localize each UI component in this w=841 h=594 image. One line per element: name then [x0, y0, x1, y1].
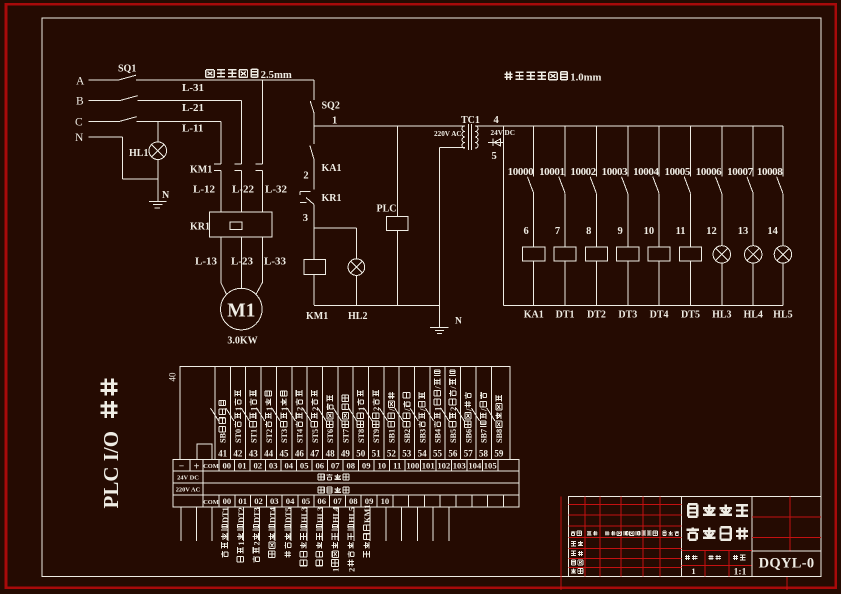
svg-text:47: 47: [310, 449, 320, 459]
svg-text:1:1: 1:1: [734, 568, 747, 578]
input wire diagonal 51: [364, 408, 372, 421]
svg-text:5: 5: [492, 151, 497, 162]
vertical heading PLC I/O分配: [99, 379, 123, 509]
coil DT3 box: [627, 193, 629, 247]
svg-text:220V AC: 220V AC: [434, 130, 462, 138]
relay contact KA1 blade: [310, 146, 314, 160]
svg-text:00: 00: [223, 461, 232, 471]
input wire diagonal 58: [471, 408, 479, 421]
input terminal 43 label: [249, 390, 258, 443]
svg-text:COM: COM: [203, 499, 219, 506]
input terminal 55 label: [434, 370, 443, 443]
input terminal 44 label: [265, 391, 274, 443]
quantity weight scale cells: [681, 550, 752, 552]
svg-text:L-11: L-11: [182, 123, 203, 135]
input terminal 58 label: [480, 392, 489, 443]
svg-text:00: 00: [223, 496, 232, 506]
branch HL4: PLC output contact 10007: [752, 126, 754, 177]
lamp HL3: [721, 193, 723, 245]
lamp HL4: [752, 193, 754, 245]
svg-text:56: 56: [448, 449, 458, 459]
svg-text:SB5: SB5: [449, 429, 458, 443]
input wire diagonal 41: [211, 408, 219, 421]
svg-text:08: 08: [349, 496, 358, 506]
title block white divider left of title: [680, 497, 682, 577]
svg-text:01: 01: [238, 496, 247, 506]
output 04 label: [284, 507, 293, 557]
svg-text:10007: 10007: [727, 166, 753, 178]
svg-text:+: +: [194, 462, 200, 473]
COM terminal notch box: [197, 444, 212, 460]
svg-text:41: 41: [218, 449, 228, 459]
input wire diagonal 47: [303, 408, 311, 421]
svg-text:SQ1: SQ1: [118, 64, 136, 75]
svg-text:10: 10: [381, 496, 390, 506]
svg-text:DT4: DT4: [268, 507, 277, 523]
input terminal 45 label: [280, 391, 289, 443]
svg-text:−: −: [179, 462, 184, 472]
svg-text:100: 100: [406, 461, 419, 471]
output 06 label: [316, 507, 325, 566]
svg-text:6: 6: [523, 226, 528, 237]
svg-text:COM: COM: [203, 463, 219, 470]
svg-text:03: 03: [270, 496, 279, 506]
svg-text:L-21: L-21: [182, 102, 204, 114]
svg-text:02: 02: [254, 496, 263, 506]
thermal relay KR1 box: [209, 212, 272, 237]
title block outer white frame: [568, 497, 821, 577]
svg-text:KA1: KA1: [322, 163, 342, 174]
input wire diagonal 59: [487, 408, 495, 421]
input wire diagonal 46: [287, 408, 295, 421]
title block red vertical tick left: [560, 497, 562, 590]
svg-text:50: 50: [356, 449, 366, 459]
svg-text:SB: SB: [219, 432, 228, 443]
wire phase C to lamp HL1: [157, 122, 159, 142]
svg-text:59: 59: [494, 449, 504, 459]
diode D1: [494, 139, 500, 146]
svg-text:104: 104: [468, 461, 482, 471]
svg-text:11: 11: [393, 461, 401, 471]
svg-text:KR1: KR1: [322, 193, 342, 204]
svg-text:DT2: DT2: [237, 507, 246, 523]
svg-text:03: 03: [269, 461, 278, 471]
svg-text:ST6: ST6: [326, 429, 335, 443]
input terminal 47 label: [311, 390, 320, 443]
input terminal 52 label: [388, 392, 397, 443]
svg-text:1: 1: [332, 116, 337, 127]
svg-text:58: 58: [479, 449, 489, 459]
svg-text:10004: 10004: [633, 166, 659, 178]
svg-text:L-32: L-32: [265, 184, 288, 196]
svg-text:HL3: HL3: [712, 310, 731, 321]
svg-text:L-12: L-12: [193, 184, 216, 196]
svg-text:44: 44: [264, 449, 274, 459]
switch SQ2 blade: [310, 101, 314, 113]
svg-text:10008: 10008: [757, 166, 783, 178]
input terminal 46 label: [295, 390, 304, 443]
svg-text:ST8: ST8: [357, 429, 366, 443]
branch DT2: PLC output contact 10002: [595, 126, 597, 177]
svg-text:HL3: HL3: [316, 507, 325, 523]
output 01 label: [237, 507, 246, 562]
input wire diagonal 52: [379, 408, 387, 421]
row2 24V DC / input group: [202, 471, 204, 483]
svg-text:57: 57: [464, 449, 474, 459]
svg-text:SB6: SB6: [464, 429, 473, 443]
svg-text:02: 02: [254, 461, 263, 471]
svg-text:L-31: L-31: [182, 82, 204, 94]
svg-text:KM1: KM1: [306, 311, 328, 322]
ground symbol at N: [430, 326, 448, 328]
wire node1 down to KA1 contact: [313, 126, 315, 144]
svg-text:10002: 10002: [570, 166, 596, 178]
svg-text:24V DC: 24V DC: [177, 475, 199, 482]
node 1 bus wire: [314, 125, 463, 127]
output 07 label: [332, 507, 341, 572]
control bottom bus wire: [314, 305, 439, 307]
row4 output terminal cells: [202, 495, 204, 507]
svg-text:SB4: SB4: [434, 429, 443, 443]
input label grid dividers: [214, 367, 216, 460]
neutral N wire: [89, 136, 123, 138]
input terminal 42 label: [234, 390, 243, 443]
svg-text:SB8: SB8: [495, 429, 504, 443]
transformer TC1 secondary winding: [475, 126, 478, 148]
svg-text:SQ2: SQ2: [322, 101, 340, 112]
svg-text:40: 40: [168, 372, 178, 382]
wire drop phase C to KM1 pole 1: [220, 122, 222, 164]
transformer TC1 primary winding: [462, 126, 465, 148]
svg-text:L-22: L-22: [232, 184, 255, 196]
svg-text:3: 3: [303, 213, 308, 224]
svg-text:C: C: [75, 117, 83, 129]
svg-text:1.0mm: 1.0mm: [570, 72, 601, 84]
drawing title 切割机电器原理图: [688, 504, 697, 516]
svg-text:ST9: ST9: [372, 429, 381, 443]
thermal NC contact KR1: [300, 190, 311, 192]
input label grid frame: [180, 367, 510, 460]
svg-text:43: 43: [249, 449, 259, 459]
output 02 label: [253, 507, 262, 562]
input terminal 41 label: [219, 401, 228, 443]
svg-text:05: 05: [302, 496, 311, 506]
title row labels 标记 处数 分区 更改文件号 签字 年月日: [571, 531, 576, 536]
output 08 label: [347, 507, 356, 572]
svg-text:SB3: SB3: [418, 429, 427, 443]
svg-text:2: 2: [303, 171, 308, 182]
svg-text:10006: 10006: [696, 166, 722, 178]
svg-text:42: 42: [233, 449, 243, 459]
wire phase A to SQ2: [313, 80, 315, 100]
svg-text:ST3: ST3: [280, 429, 289, 443]
svg-text:4: 4: [494, 115, 500, 126]
24V left rail wire: [503, 126, 505, 306]
wire node3 to KM1 coil: [313, 205, 315, 260]
svg-text:2: 2: [253, 541, 262, 545]
svg-text:48: 48: [326, 449, 336, 459]
svg-text:A: A: [76, 76, 85, 88]
svg-text:ST5: ST5: [311, 429, 320, 443]
input terminal 50 label: [357, 390, 366, 443]
svg-text:DT5: DT5: [681, 310, 700, 321]
input wire diagonal 50: [349, 408, 357, 421]
svg-text:45: 45: [280, 449, 290, 459]
svg-text:PLC: PLC: [377, 204, 397, 215]
lamp HL2: [348, 259, 365, 276]
svg-text:10001: 10001: [539, 166, 565, 178]
svg-text:L-23: L-23: [231, 256, 254, 268]
svg-text:1: 1: [691, 566, 695, 576]
wire number 40 rotated: [168, 372, 178, 382]
coil KA1 box: [533, 193, 535, 247]
coil DT1 box: [564, 193, 566, 247]
phase A wire with SQ1 blade: [89, 79, 119, 81]
svg-text:3.0KW: 3.0KW: [227, 336, 257, 347]
svg-text:07: 07: [333, 496, 342, 506]
diode D1 stub wire: [488, 141, 504, 143]
title block left grid red lines: [568, 504, 681, 506]
svg-text:103: 103: [453, 461, 466, 471]
wire drop phase B to KM1 pole 2: [241, 101, 243, 164]
svg-text:1: 1: [237, 541, 246, 545]
svg-text:10: 10: [644, 226, 655, 237]
svg-text:HL4: HL4: [743, 310, 762, 321]
24V top bus wire: [475, 125, 783, 127]
right upper cells red lines: [752, 516, 821, 518]
svg-text:HL4: HL4: [332, 507, 341, 523]
svg-text:SB1: SB1: [388, 429, 397, 443]
lamp HL5: [782, 193, 784, 245]
branch DT4: PLC output contact 10004: [658, 126, 660, 177]
input wire diagonal 44: [257, 408, 265, 421]
svg-text:SB7: SB7: [480, 429, 489, 443]
thermal relay KR1 heater notch: [230, 222, 242, 230]
svg-text:13: 13: [738, 226, 749, 237]
wire PLC to bottom bus: [397, 231, 399, 306]
phase C wire with SQ1 blade: [89, 121, 120, 123]
wire node1 bus to PLC: [397, 126, 399, 217]
input terminal 56 label: [449, 370, 458, 443]
svg-text:9: 9: [618, 226, 623, 237]
svg-text:ST2: ST2: [265, 429, 274, 443]
svg-text:102: 102: [437, 461, 450, 471]
input terminal 53 label: [403, 393, 412, 443]
contactor KM1 main contacts: [214, 163, 221, 165]
wire drop phase A to KM1 pole 3: [261, 80, 263, 164]
coil DT5 box: [690, 193, 692, 247]
terminal strip table frame: [173, 460, 519, 508]
svg-text:2.5mm: 2.5mm: [261, 69, 292, 81]
input wire diagonal 55: [425, 408, 433, 421]
svg-text:L-33: L-33: [264, 256, 287, 268]
svg-text:2: 2: [347, 568, 356, 572]
input terminal 48 label: [326, 395, 335, 443]
svg-text:55: 55: [433, 449, 443, 459]
svg-text:KM1: KM1: [363, 505, 372, 523]
wire KM1 coil to bottom bus: [313, 275, 315, 305]
coil DT4 box: [658, 193, 660, 247]
input wire diagonal 45: [272, 408, 280, 421]
svg-text:KM1: KM1: [190, 165, 212, 176]
wire primary bottom to ground: [439, 146, 465, 148]
svg-text:06: 06: [316, 461, 325, 471]
svg-text:10: 10: [378, 461, 387, 471]
input terminal 59 label: [495, 395, 504, 443]
branch DT1: PLC output contact 10001: [564, 126, 566, 177]
svg-text:101: 101: [422, 461, 435, 471]
input wire diagonal 49: [333, 408, 341, 421]
svg-text:54: 54: [418, 449, 428, 459]
branch DT5: PLC output contact 10005: [690, 126, 692, 177]
title block white divider right of title: [751, 497, 753, 577]
title block red vertical tick right: [786, 576, 788, 590]
control circuit note 控制电路线径1.0mm: [504, 72, 512, 80]
svg-text:06: 06: [317, 496, 326, 506]
svg-text:PLC I/O: PLC I/O: [99, 431, 123, 509]
svg-text:KR1: KR1: [190, 222, 210, 233]
input wire diagonal 43: [241, 408, 249, 421]
wire KA1 to KR1 contact: [313, 160, 315, 190]
svg-text:ST7: ST7: [342, 429, 351, 443]
title left labels 设计 制图 审核 工艺: [571, 542, 576, 546]
svg-text:10000: 10000: [508, 166, 534, 178]
input terminal 49 label: [342, 395, 351, 443]
branch HL3: PLC output contact 10006: [721, 126, 723, 177]
svg-text:DT3: DT3: [253, 507, 262, 523]
input wire diagonal 56: [441, 408, 449, 421]
terminal strip row lines: [173, 470, 519, 472]
svg-text:7: 7: [555, 226, 560, 237]
row3 220V AC / output group: [202, 483, 204, 495]
input terminal 57 label: [464, 392, 473, 443]
branch KA1: PLC output contact 10000: [533, 126, 535, 177]
input wire diagonal 53: [395, 408, 403, 421]
output 05 label: [300, 507, 309, 566]
svg-text:HL5: HL5: [347, 507, 356, 523]
svg-text:SB2: SB2: [403, 429, 412, 443]
input wire diagonal 48: [318, 408, 326, 421]
branch DT3: PLC output contact 10003: [627, 126, 629, 177]
svg-text:HL1: HL1: [129, 148, 148, 159]
svg-text:24V DC: 24V DC: [491, 129, 515, 137]
svg-text:220V AC: 220V AC: [176, 487, 201, 494]
svg-text:DT3: DT3: [618, 310, 637, 321]
svg-text:52: 52: [387, 449, 397, 459]
coil DT2 box: [595, 193, 597, 247]
svg-text:14: 14: [767, 226, 778, 237]
row1 cells and labels: [189, 460, 191, 472]
svg-text:DT2: DT2: [587, 310, 606, 321]
svg-text:HL2: HL2: [348, 311, 367, 322]
24V bottom bus wire: [504, 305, 783, 307]
wire HL2 to bottom bus: [355, 275, 357, 305]
svg-text:TC1: TC1: [461, 115, 480, 126]
output 00 label: [221, 507, 230, 557]
svg-text:01: 01: [238, 461, 247, 471]
ground symbol below HL1: [149, 200, 167, 202]
svg-text:L-13: L-13: [195, 256, 218, 268]
svg-text:04: 04: [286, 496, 295, 506]
svg-text:DT1: DT1: [221, 507, 230, 523]
svg-text:DT1: DT1: [556, 310, 575, 321]
svg-text:04: 04: [285, 461, 294, 471]
svg-text:46: 46: [295, 449, 305, 459]
svg-text:ST4: ST4: [295, 429, 304, 443]
svg-text:HL5: HL5: [773, 310, 792, 321]
input terminal 51 label: [372, 390, 381, 443]
svg-text:N: N: [162, 190, 170, 201]
svg-text:09: 09: [362, 461, 371, 471]
svg-text:1: 1: [332, 568, 341, 572]
svg-text:10003: 10003: [602, 166, 628, 178]
phase B wire with SQ1 blade: [89, 100, 121, 102]
wire branch to HL2: [314, 227, 356, 229]
svg-text:ST0: ST0: [234, 429, 243, 443]
svg-text:08: 08: [347, 461, 356, 471]
svg-text:11: 11: [676, 226, 686, 237]
svg-text:DT5: DT5: [284, 507, 293, 523]
input terminal 54 label: [418, 392, 427, 443]
output wire stubs: [180, 507, 182, 541]
svg-text:105: 105: [484, 461, 497, 471]
input wire diagonal 54: [410, 408, 418, 421]
svg-text:8: 8: [586, 226, 591, 237]
wire L-13 to motor: [220, 237, 222, 283]
svg-text:ST1: ST1: [249, 429, 258, 443]
svg-text:51: 51: [372, 449, 382, 459]
drawing number box DQYL-0: [752, 551, 821, 576]
svg-text:B: B: [76, 96, 84, 108]
output 03 label: [268, 507, 277, 557]
PLC box: [387, 217, 408, 231]
svg-text:49: 49: [341, 449, 351, 459]
output 09 label: [363, 505, 372, 558]
transformer TC1 core: [468, 124, 470, 150]
branch HL5: PLC output contact 10008: [782, 126, 784, 177]
wire L-23 to motor: [240, 237, 242, 288]
svg-text:05: 05: [300, 461, 309, 471]
wire L-33 to motor: [261, 237, 263, 283]
svg-text:N: N: [455, 317, 462, 327]
motor M1: [221, 288, 263, 330]
svg-text:07: 07: [331, 461, 340, 471]
main circuit note 主电路线径2.5mm: [206, 70, 214, 78]
svg-text:M1: M1: [227, 301, 255, 322]
svg-text:DQYL-0: DQYL-0: [759, 556, 815, 572]
wire lamp HL1 to ground: [157, 160, 159, 202]
svg-text:10005: 10005: [664, 166, 690, 178]
lamp HL1: [149, 142, 167, 160]
svg-text:12: 12: [706, 226, 717, 237]
input wire diagonal 42: [226, 408, 234, 421]
input wire diagonal 57: [456, 408, 464, 421]
svg-text:HL3: HL3: [300, 507, 309, 523]
coil KM1 box: [304, 260, 326, 275]
svg-text:DT4: DT4: [650, 310, 669, 321]
svg-text:53: 53: [402, 449, 412, 459]
svg-text:KA1: KA1: [524, 310, 544, 321]
svg-text:N: N: [75, 132, 84, 144]
